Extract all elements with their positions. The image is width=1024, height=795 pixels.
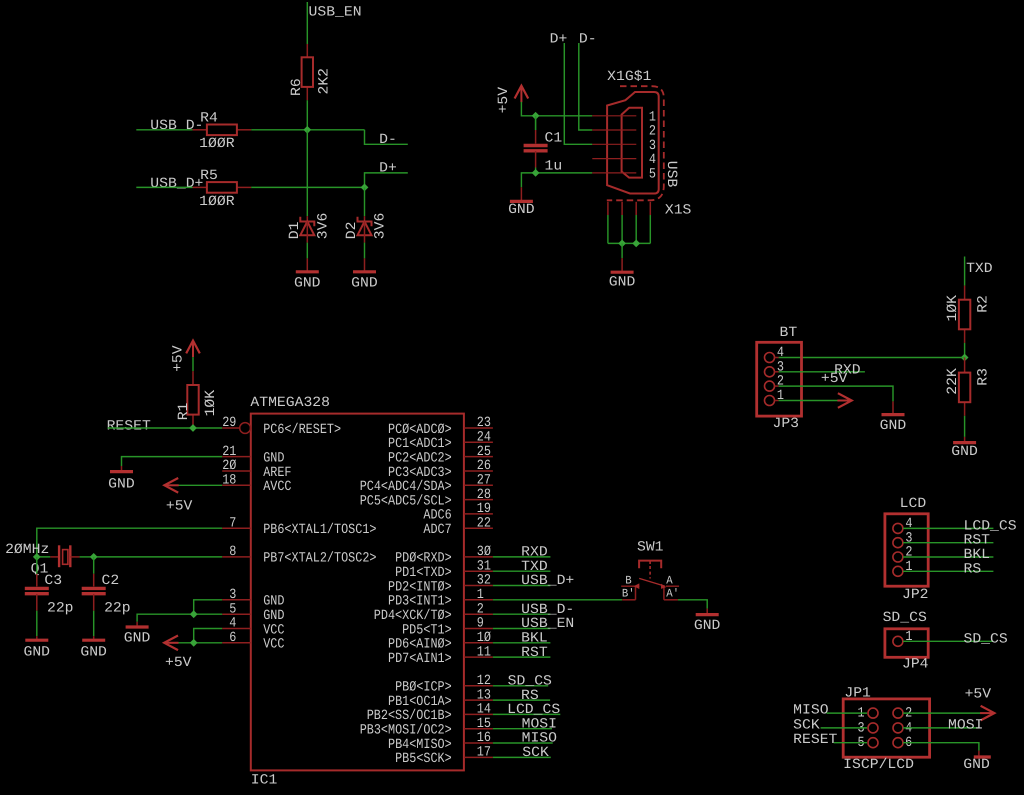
svg-text:2K2: 2K2: [317, 68, 333, 95]
pin 17 IC1: [464, 756, 493, 758]
wire SCK (JP1): [821, 727, 867, 729]
svg-text:17: 17: [477, 745, 491, 761]
wire C3 to ground: [36, 611, 38, 637]
svg-text:AVCC: AVCC: [263, 479, 291, 495]
pin 32 IC1: [464, 585, 493, 587]
wire BKL: [493, 642, 551, 644]
node XTAL2 junction: [90, 553, 98, 561]
wire USB_D+ right: [251, 186, 364, 188]
node USB_D+ junction: [361, 184, 369, 192]
pin 1 JP2: [893, 566, 903, 576]
ground pin21: [121, 466, 123, 470]
svg-text:R5: R5: [200, 168, 218, 184]
wire USB_D-: [493, 613, 551, 615]
pin 5 JP1: [868, 738, 878, 748]
diode D1 (zener 3V6): [306, 216, 308, 221]
svg-text:D+: D+: [379, 161, 397, 177]
ic IC1 ATMEGA328 body: [251, 414, 464, 771]
wire RST: [493, 656, 551, 658]
resistor R5: [193, 186, 207, 188]
connector JP1 body: [843, 699, 929, 757]
svg-text:29: 29: [222, 415, 236, 431]
svg-text:SD_CS: SD_CS: [883, 610, 927, 626]
switch SW1: [622, 599, 635, 601]
pin 11 IC1: [464, 656, 493, 658]
svg-text:22p: 22p: [47, 601, 74, 617]
svg-text:7: 7: [229, 515, 236, 531]
wire JP4 SD_CS: [903, 640, 993, 642]
svg-text:PD7<AIN1>: PD7<AIN1>: [388, 651, 452, 667]
wire USB_D- right: [251, 129, 364, 131]
svg-text:B: B: [625, 574, 631, 587]
power +5V (JP3): [838, 393, 852, 408]
svg-text:RESET: RESET: [107, 419, 151, 435]
wire JP2 RS: [903, 570, 993, 572]
wire +5V to R1: [192, 357, 194, 371]
svg-text:PB6<XTAL1/TOSC1>: PB6<XTAL1/TOSC1>: [263, 522, 376, 538]
svg-text:8: 8: [229, 544, 236, 560]
wire shield bus: [607, 215, 609, 243]
wire JP1 pin4 MOSI: [903, 727, 979, 729]
svg-text:1: 1: [777, 388, 784, 404]
pin 5 IC1: [222, 613, 251, 615]
wire JP1 pin2 +5V: [903, 712, 981, 714]
pin 14 IC1: [464, 713, 493, 715]
ground C3: [36, 636, 38, 639]
wire D+ elbow: [365, 173, 408, 188]
svg-text:MOSI: MOSI: [948, 717, 983, 733]
wire MOSI: [493, 728, 552, 730]
power +5V (VCC): [164, 636, 178, 651]
svg-text:VCC: VCC: [263, 637, 284, 653]
wire SCK: [493, 756, 551, 758]
wire JP2 LCD_CS: [903, 527, 993, 529]
svg-text:RS: RS: [964, 561, 982, 577]
node RESET junction: [189, 424, 197, 432]
pin 2 JP3: [765, 381, 775, 391]
svg-text:A': A': [666, 588, 679, 601]
node pin6 junction: [190, 639, 198, 647]
wire XTAL1: [37, 528, 222, 557]
pin 2 JP1: [893, 708, 903, 718]
wire MISO: [493, 742, 553, 744]
svg-text:1u: 1u: [545, 158, 563, 174]
capacitor C3: [36, 557, 38, 574]
node VBUS junction: [532, 112, 540, 120]
capacitor C2: [93, 557, 95, 574]
pin 21 IC1: [222, 456, 251, 458]
pin 3 X1: [592, 143, 636, 145]
pin 1 JP4: [893, 636, 903, 646]
wire pin1 net: [493, 599, 622, 601]
wire D+ vertical: [564, 43, 592, 144]
ground D1: [306, 258, 308, 270]
pin 1 X1: [592, 115, 636, 117]
pin 27 IC1: [464, 484, 493, 486]
pin 4 X1: [592, 158, 636, 160]
svg-text:GND: GND: [880, 418, 907, 434]
svg-text:11: 11: [477, 644, 491, 660]
crystal Q1: [50, 556, 59, 558]
wire SW1 to ground: [678, 600, 707, 609]
wire RXD: [493, 556, 551, 558]
svg-text:X1G$1: X1G$1: [607, 69, 651, 85]
wire R6 to node: [306, 100, 308, 130]
svg-text:USB_EN: USB_EN: [309, 4, 362, 20]
wire USB_D- left: [136, 129, 192, 131]
connector X1 dashed frame: [607, 86, 664, 200]
svg-text:TXD: TXD: [966, 261, 993, 277]
power +5V (USB): [515, 86, 529, 99]
svg-text:D1: D1: [287, 222, 303, 240]
pin 12 IC1: [464, 685, 493, 687]
svg-text:1: 1: [905, 629, 912, 645]
svg-text:USB_D+: USB_D+: [150, 176, 203, 192]
connector X1S shield pins: [607, 202, 609, 215]
pin 28 IC1: [464, 499, 493, 501]
wire D2 to net: [364, 187, 366, 216]
node pin5 junction: [190, 610, 198, 618]
svg-text:R6: R6: [289, 78, 305, 96]
wire C2 to ground: [93, 611, 95, 637]
resistor R6: [306, 44, 308, 57]
svg-text:C1: C1: [545, 131, 563, 147]
pin 1 JP3: [765, 396, 775, 406]
pin 10 IC1: [464, 642, 493, 644]
pin 3 IC1: [222, 599, 251, 601]
svg-text:22: 22: [477, 515, 491, 531]
wire JP2 RST: [903, 542, 993, 544]
svg-text:PB7<XTAL2/TOSC2>: PB7<XTAL2/TOSC2>: [263, 551, 376, 567]
power +5V (JP1): [981, 706, 995, 721]
pin 3 JP2: [893, 538, 903, 548]
connector X1G$1 outline: [607, 92, 659, 194]
svg-text:USB_D+: USB_D+: [521, 573, 574, 589]
ground JP1: [978, 751, 980, 756]
svg-text:SCK: SCK: [793, 717, 820, 733]
pin 5 X1: [592, 172, 636, 174]
wire C1 bottom: [535, 168, 537, 173]
wire GND pin5: [137, 614, 222, 622]
ground C1: [520, 187, 522, 200]
svg-text:+5V: +5V: [165, 655, 192, 671]
wire USB_D+: [493, 585, 551, 587]
capacitor C1: [535, 116, 537, 130]
wire JP3 pin2 to ground: [779, 386, 893, 401]
svg-text:D-: D-: [379, 132, 397, 148]
pin 26 IC1: [464, 470, 493, 472]
svg-text:GND: GND: [609, 274, 636, 290]
svg-text:1ØØR: 1ØØR: [199, 136, 235, 152]
svg-text:+5V: +5V: [965, 687, 992, 703]
svg-text:C3: C3: [44, 573, 62, 589]
wire RS: [493, 699, 550, 701]
pin 23 IC1: [464, 427, 493, 429]
wire D- vertical: [579, 43, 593, 130]
svg-text:5: 5: [649, 167, 656, 183]
svg-text:1ØK: 1ØK: [203, 389, 219, 416]
svg-text:JP1: JP1: [844, 686, 871, 702]
svg-text:C2: C2: [102, 573, 120, 589]
pin 2 X1: [592, 129, 636, 131]
svg-text:ISCP/LCD: ISCP/LCD: [843, 757, 914, 773]
svg-text:PC6</RESET>: PC6</RESET>: [263, 422, 341, 438]
pin 6 JP1: [893, 738, 903, 748]
svg-text:22K: 22K: [945, 368, 961, 395]
pin 4 IC1: [222, 628, 251, 630]
svg-text:JP2: JP2: [902, 587, 929, 603]
svg-text:1ØØR: 1ØØR: [199, 194, 235, 210]
svg-text:3V6: 3V6: [373, 213, 389, 240]
wire JP3 pin3 RXD: [779, 371, 865, 373]
pin 9 IC1: [464, 628, 493, 630]
pin 20 IC1: [222, 470, 251, 472]
wire R2 to node: [964, 343, 966, 358]
svg-text:ATMEGA328: ATMEGA328: [250, 395, 330, 411]
wire VCC pin6: [179, 642, 223, 644]
svg-text:D-: D-: [579, 32, 597, 48]
resistor R4: [193, 129, 207, 131]
svg-text:PB5<SCK>: PB5<SCK>: [395, 751, 452, 767]
svg-text:R1: R1: [176, 403, 192, 421]
svg-text:+5V: +5V: [496, 86, 512, 113]
wire USB_EN vertical: [306, 2, 308, 44]
power +5V (AVCC): [164, 478, 178, 493]
wire RESET: [108, 427, 223, 429]
node USB_D- junction: [303, 126, 311, 134]
svg-text:JP4: JP4: [902, 657, 929, 673]
svg-text:GND: GND: [508, 202, 534, 218]
svg-text:D2: D2: [344, 222, 360, 240]
pin 2 IC1: [464, 613, 493, 615]
wire USB_D+ left: [136, 186, 192, 188]
svg-text:B': B': [622, 588, 635, 601]
wire VCC pin4: [194, 629, 223, 643]
svg-text:R2: R2: [976, 295, 992, 313]
svg-text:GND: GND: [24, 645, 51, 661]
svg-text:1ØK: 1ØK: [945, 294, 961, 321]
wire JP2 BKL: [903, 556, 993, 558]
wire +5V to VBUS: [521, 102, 592, 116]
svg-text:GND: GND: [963, 757, 990, 773]
svg-text:GND: GND: [694, 618, 721, 634]
pin 30 IC1: [464, 556, 493, 558]
pin 1 JP1: [868, 708, 878, 718]
ground D2: [364, 258, 366, 270]
ground pin5: [136, 622, 138, 626]
wire D1 to net: [306, 130, 308, 216]
wire D1 to ground: [306, 243, 308, 259]
wire RESET (JP1): [834, 742, 867, 744]
wire D2 to ground: [364, 243, 366, 259]
wire USB_EN: [493, 628, 551, 630]
svg-text:18: 18: [222, 473, 236, 489]
pin 8 IC1: [222, 556, 251, 558]
wire SD_CS: [493, 685, 548, 687]
pin 4 JP3: [765, 353, 775, 363]
svg-text:MISO: MISO: [793, 703, 828, 719]
power +5V (R1): [186, 341, 200, 354]
resistor R3: [964, 358, 966, 373]
pin 3 JP1: [868, 723, 878, 733]
pin 2 JP2: [893, 552, 903, 562]
svg-text:BT: BT: [780, 325, 798, 341]
svg-text:1: 1: [905, 559, 912, 575]
wire LCD_CS: [493, 713, 560, 715]
node C1 bottom junction: [532, 169, 540, 177]
svg-text:USB_D-: USB_D-: [150, 118, 203, 134]
svg-text:22p: 22p: [104, 601, 131, 617]
wire TXD: [964, 257, 966, 286]
pin 6 IC1: [222, 642, 251, 644]
svg-text:GND: GND: [294, 275, 321, 291]
svg-text:LCD: LCD: [900, 496, 927, 512]
pin 16 IC1: [464, 742, 493, 744]
svg-text:IC1: IC1: [251, 772, 277, 788]
pin 29 IC1: [222, 427, 239, 429]
svg-text:+5V: +5V: [821, 371, 848, 387]
node XTAL1 junction: [33, 553, 41, 561]
wire JP3 pin1 +5V: [779, 400, 838, 402]
svg-text:USB: USB: [663, 161, 679, 188]
wire AVCC: [179, 484, 223, 486]
wire GND pin3: [194, 600, 223, 614]
svg-text:JP3: JP3: [773, 416, 800, 432]
node shield junction 2: [632, 240, 640, 248]
svg-text:RST: RST: [521, 645, 548, 661]
wire TXD: [493, 570, 551, 572]
pin 25 IC1: [464, 456, 493, 458]
ground C2: [93, 636, 95, 639]
resistor R1: [192, 371, 194, 385]
svg-text:A: A: [666, 574, 672, 587]
svg-text:+5V: +5V: [166, 499, 193, 515]
svg-text:X1S: X1S: [665, 203, 692, 219]
node shield junction 1: [618, 240, 626, 248]
connector JP3 body: [757, 342, 802, 416]
wire GND pin21: [122, 457, 223, 466]
pin 1 IC1: [464, 599, 493, 601]
connector X1 inner shell: [622, 108, 642, 178]
wire XTAL2: [80, 556, 94, 558]
pin 3 JP3: [765, 367, 775, 377]
ground X1S: [621, 258, 623, 271]
svg-text:SD_CS: SD_CS: [964, 632, 1008, 648]
svg-text:6: 6: [229, 630, 236, 646]
svg-text:2ØMHz: 2ØMHz: [5, 542, 49, 558]
wire shield to ground: [621, 243, 623, 258]
diode D2 (zener 3V6): [364, 216, 366, 221]
svg-text:3V6: 3V6: [315, 213, 331, 240]
pin 7 IC1: [222, 527, 251, 529]
wire MISO (JP1): [827, 712, 868, 714]
svg-text:SCK: SCK: [522, 745, 549, 761]
svg-text:ADC7: ADC7: [423, 522, 451, 538]
svg-text:GND: GND: [351, 275, 378, 291]
svg-text:SW1: SW1: [637, 540, 664, 556]
svg-text:GND: GND: [124, 631, 151, 647]
resistor R2: [964, 286, 966, 300]
svg-text:R4: R4: [200, 110, 218, 126]
svg-text:RESET: RESET: [793, 732, 837, 748]
node R2/R3 junction: [961, 354, 969, 362]
ground R3: [964, 437, 966, 441]
ground SW1: [706, 609, 708, 613]
wire R3 to ground: [964, 416, 966, 437]
connector JP2 body: [885, 514, 928, 586]
pin 24 IC1: [464, 441, 493, 443]
pin 4 JP2: [893, 523, 903, 533]
wire RXD bus (BT pin4): [779, 357, 965, 359]
pin 13 IC1: [464, 699, 493, 701]
ground JP3: [892, 401, 894, 413]
svg-text:GND: GND: [951, 444, 978, 460]
svg-text:+5V: +5V: [171, 345, 187, 372]
wire GND row (USB): [536, 172, 593, 174]
pin 4 JP1: [893, 723, 903, 733]
pin 31 IC1: [464, 570, 493, 572]
pin 15 IC1: [464, 728, 493, 730]
pin 19 IC1: [464, 513, 493, 515]
wire JP1 pin6 to ground: [903, 743, 979, 751]
svg-text:GND: GND: [108, 477, 135, 493]
pin 22 IC1: [464, 527, 493, 529]
svg-text:GND: GND: [80, 645, 107, 661]
pin 18 IC1: [222, 484, 251, 486]
connector JP4 body: [885, 629, 928, 658]
svg-text:R3: R3: [976, 368, 992, 386]
wire D- elbow: [365, 130, 408, 145]
